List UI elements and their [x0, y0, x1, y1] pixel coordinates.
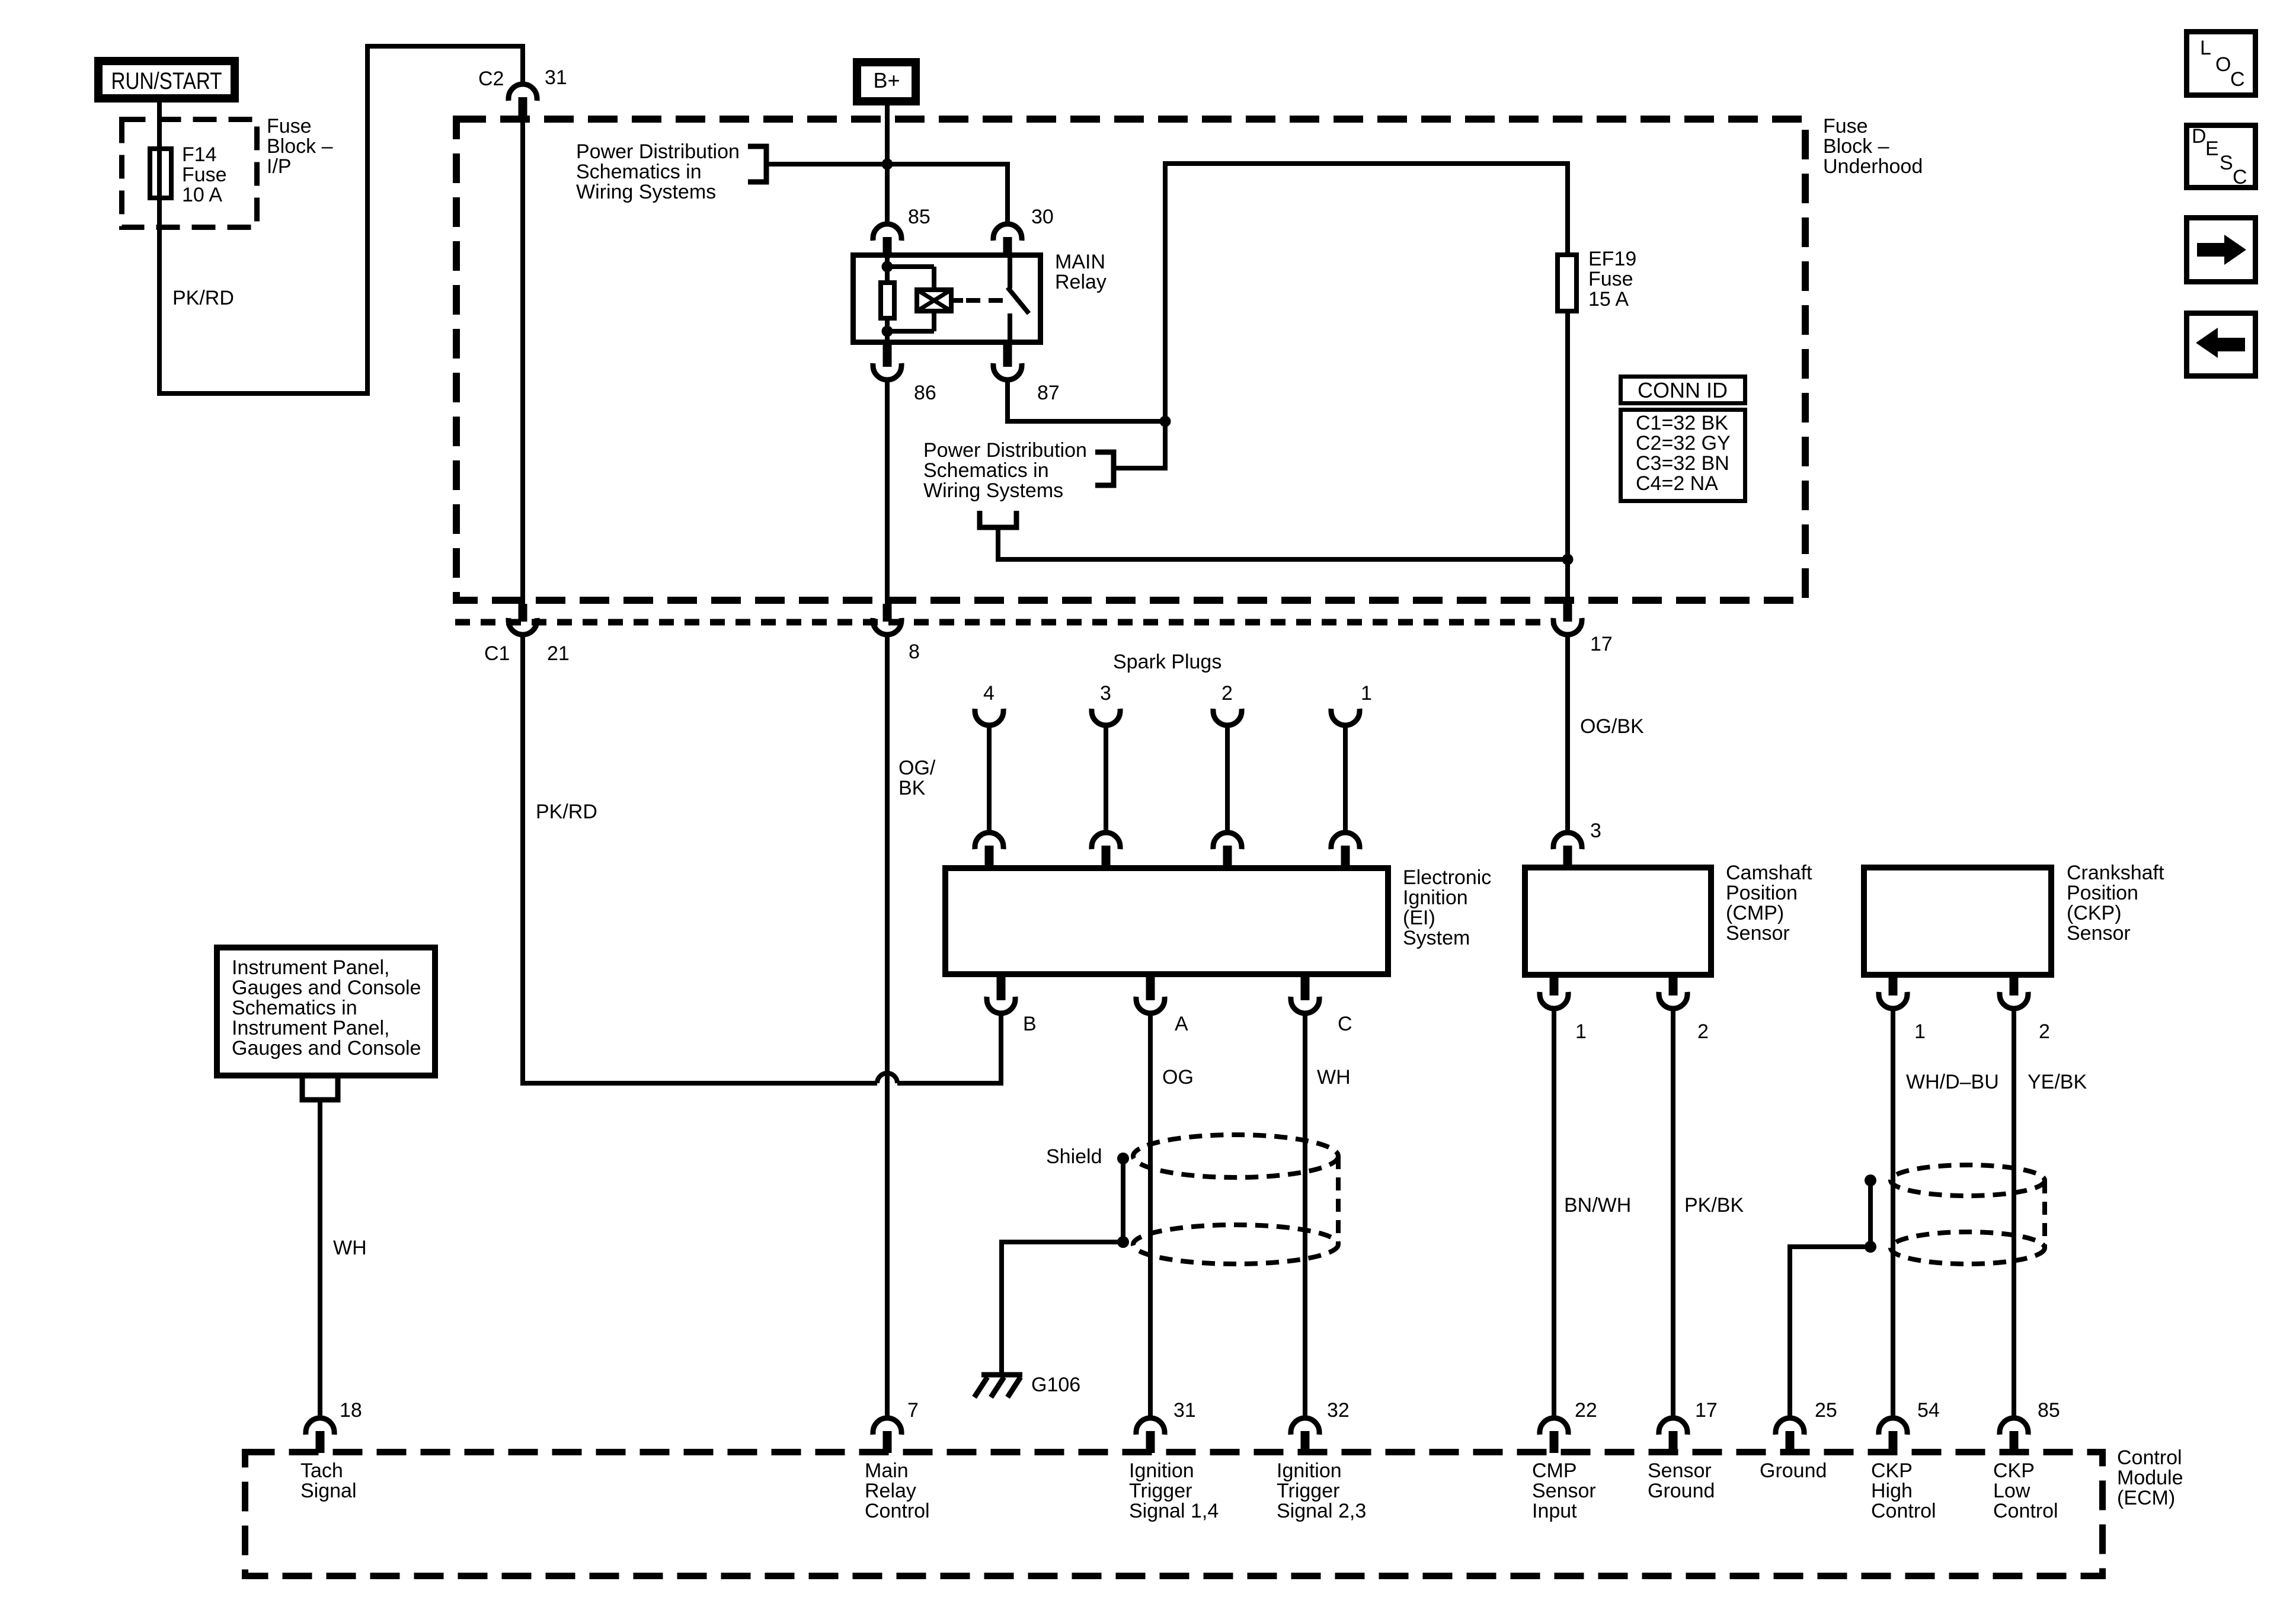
svg-text:Relay: Relay: [1055, 271, 1107, 293]
svg-text:E: E: [2205, 137, 2219, 160]
svg-text:Sensor: Sensor: [1648, 1459, 1712, 1482]
shield right drain wire: [1868, 1180, 1873, 1247]
wire spark plug 1 to EI system: [1343, 724, 1348, 834]
icon back arrow box: [2187, 313, 2256, 376]
svg-text:10 A: 10 A: [182, 184, 222, 206]
wire WH/D-BU CKP 1 to ECM 54: [1893, 1008, 1999, 1420]
svg-text:Signal 1,4: Signal 1,4: [1129, 1500, 1219, 1522]
ECM pin 54 connector: [1879, 1399, 1940, 1453]
svg-text:L: L: [2200, 37, 2211, 59]
wire junction up and right to fuse EF19: [1165, 164, 1568, 421]
svg-text:31: 31: [545, 66, 567, 89]
svg-text:86: 86: [914, 382, 936, 404]
EI pin B connector: [987, 977, 1037, 1035]
reference Instrument Panel Gauges and Console box: [217, 948, 435, 1076]
svg-text:3: 3: [1100, 682, 1111, 705]
wire OG/BK connector 17 to CMP pin 3: [1565, 633, 1570, 834]
svg-text:Crankshaft: Crankshaft: [2067, 862, 2164, 884]
relay pin 85 connector: [873, 206, 930, 254]
wire PK/RD from C1-21 to EI pin B: [523, 633, 1001, 1083]
spark plug 1 terminal: [1331, 682, 1372, 725]
junction shield left bottom: [1117, 1236, 1129, 1248]
svg-text:Control: Control: [1871, 1500, 1936, 1522]
svg-text:Underhood: Underhood: [1823, 155, 1923, 178]
svg-text:7: 7: [907, 1399, 919, 1422]
reference bracket below middle text: [980, 511, 1016, 527]
wire YE/BK CKP 2 to ECM 85: [2014, 1008, 2087, 1420]
svg-text:21: 21: [547, 642, 570, 665]
EI system top pin 1 connector: [1331, 833, 1360, 866]
ECM pin 32 function label: [1277, 1459, 1366, 1522]
wire bracket to relay pin 30: [766, 164, 1008, 226]
svg-text:C: C: [2230, 68, 2245, 91]
ECM pin 7 connector: [873, 1399, 919, 1453]
label OG/BK (left): [898, 757, 936, 799]
svg-text:PK/RD: PK/RD: [536, 801, 597, 823]
ECM pin 32 connector: [1291, 1399, 1350, 1453]
connector C2 pin 31: [478, 66, 567, 119]
svg-text:RUN/START: RUN/START: [111, 68, 222, 94]
svg-text:Fuse: Fuse: [1823, 115, 1868, 137]
reference Power Distribution Schematics in Wiring Systems (top): [576, 140, 766, 203]
fuse block - Underhood dashed box: [456, 119, 1805, 600]
ECM pin 54 function label: [1871, 1459, 1936, 1522]
svg-text:Sensor: Sensor: [1726, 922, 1790, 945]
svg-text:C2: C2: [478, 68, 504, 90]
EI pin A connector: [1136, 977, 1188, 1035]
connector pin 8: [873, 604, 920, 663]
svg-text:85: 85: [2038, 1399, 2060, 1422]
ECM pin 31 function label: [1129, 1459, 1219, 1522]
ECM pin 17 function label: [1648, 1459, 1715, 1502]
svg-text:YE/BK: YE/BK: [2028, 1071, 2087, 1093]
relay switch contact 87 side: [1008, 313, 1012, 343]
relay switch blade: [1008, 287, 1029, 313]
EI system top pin 3 connector: [1092, 833, 1120, 866]
svg-text:C4=2 NA: C4=2 NA: [1636, 472, 1718, 495]
svg-text:Instrument Panel,: Instrument Panel,: [232, 1017, 389, 1039]
svg-text:85: 85: [908, 206, 930, 228]
svg-text:3: 3: [1590, 820, 1601, 842]
icon LOC box: [2187, 32, 2256, 95]
svg-text:Block –: Block –: [267, 135, 333, 158]
reference bracket below instrument panel box: [302, 1078, 338, 1100]
relay coil branch wire: [887, 255, 934, 343]
label Fuse Block - Underhood: [1823, 115, 1923, 178]
svg-text:A: A: [1175, 1013, 1188, 1035]
svg-text:1: 1: [1575, 1020, 1587, 1043]
svg-text:Shield: Shield: [1046, 1145, 1102, 1168]
wire PK/RD inside underhood C2 to C1: [520, 117, 525, 605]
svg-text:1: 1: [1361, 682, 1372, 705]
icon DESC box: [2187, 125, 2256, 188]
svg-text:Signal: Signal: [300, 1480, 357, 1502]
wire OG/BK connector 8 to ECM pin 7: [885, 633, 890, 1420]
svg-text:PK/RD: PK/RD: [172, 287, 234, 309]
shield left drain wire: [1121, 1158, 1125, 1242]
svg-text:18: 18: [340, 1399, 362, 1422]
svg-text:Spark Plugs: Spark Plugs: [1113, 651, 1221, 673]
svg-text:B: B: [1023, 1013, 1037, 1035]
svg-text:Camshaft: Camshaft: [1726, 862, 1812, 884]
svg-text:C1=32 BK: C1=32 BK: [1636, 412, 1728, 434]
svg-text:O: O: [2215, 53, 2231, 76]
ECM pin 22 function label: [1532, 1459, 1596, 1522]
svg-text:OG/BK: OG/BK: [1580, 715, 1644, 738]
fuse F14 10 A: [150, 143, 227, 206]
CMP pin 1 connector: [1540, 978, 1587, 1043]
svg-text:Schematics in: Schematics in: [576, 161, 702, 183]
svg-text:32: 32: [1327, 1399, 1350, 1422]
CMP pin 2 connector: [1659, 978, 1709, 1043]
ECM pin 7 function label: [865, 1459, 930, 1522]
wire WH from EI pin C to ECM 32: [1305, 1013, 1351, 1420]
svg-text:Fuse: Fuse: [267, 115, 312, 137]
svg-text:1: 1: [1914, 1020, 1926, 1043]
ECM pin 17 connector: [1659, 1399, 1718, 1453]
svg-text:WH/D–BU: WH/D–BU: [1906, 1071, 1999, 1093]
CMP sensor pin 3 connector: [1553, 820, 1601, 866]
svg-text:Fuse: Fuse: [1588, 268, 1633, 290]
svg-text:WH: WH: [333, 1237, 367, 1259]
svg-text:CMP: CMP: [1532, 1459, 1577, 1482]
ECM pin 25 connector: [1776, 1399, 1837, 1453]
svg-text:Instrument Panel,: Instrument Panel,: [232, 956, 389, 979]
electronic ignition EI system box: [945, 866, 1491, 974]
wire bracket stem to EF19 fuse bottom node: [998, 527, 1568, 559]
svg-text:BK: BK: [898, 777, 926, 799]
svg-text:2: 2: [1697, 1020, 1709, 1043]
svg-text:Gauges and Console: Gauges and Console: [232, 1037, 421, 1060]
ECM pin 85 connector: [2000, 1399, 2060, 1453]
junction node B+ feed: [882, 159, 893, 170]
svg-text:G106: G106: [1031, 1374, 1080, 1396]
svg-text:Ignition: Ignition: [1403, 886, 1468, 909]
reference Power Distribution Schematics in Wiring Systems (middle): [923, 439, 1114, 502]
svg-text:Gauges and Console: Gauges and Console: [232, 977, 421, 999]
wire spark plug 4 to EI system: [987, 724, 992, 834]
CONN ID table: [1621, 377, 1745, 501]
fuse EF19 15 A: [1558, 248, 1636, 311]
svg-text:BN/WH: BN/WH: [1564, 1194, 1631, 1217]
CKP pin 1 connector: [1879, 978, 1926, 1043]
wire ECM 25 ground to shield right: [1790, 1247, 1865, 1420]
svg-text:Wiring Systems: Wiring Systems: [923, 479, 1063, 502]
svg-text:(ECM): (ECM): [2117, 1487, 2175, 1509]
ground G106: [974, 1374, 1080, 1397]
junction shield left top: [1117, 1153, 1129, 1164]
label PK/RD (lower): [536, 801, 597, 823]
wire BN/WH CMP 1 to ECM 22: [1554, 1008, 1631, 1420]
svg-text:17: 17: [1695, 1399, 1718, 1422]
relay pin 86 connector: [873, 345, 936, 404]
svg-text:(CMP): (CMP): [1726, 902, 1784, 924]
svg-text:Sensor: Sensor: [2067, 922, 2131, 945]
connector C1 pin 21: [484, 604, 570, 665]
svg-text:System: System: [1403, 927, 1470, 949]
svg-text:2: 2: [2039, 1020, 2050, 1043]
svg-text:(CKP): (CKP): [2067, 902, 2122, 924]
svg-text:B+: B+: [873, 68, 900, 92]
svg-text:87: 87: [1037, 382, 1060, 404]
svg-text:Tach: Tach: [300, 1459, 343, 1482]
power node B+: [857, 62, 916, 101]
junction relay coil bottom: [882, 326, 893, 337]
junction relay 87 node: [1160, 416, 1171, 427]
svg-text:8: 8: [909, 641, 920, 663]
control module ECM dashed box: [245, 1446, 2183, 1576]
CKP pin 2 connector: [2000, 978, 2050, 1043]
ECM pin 25 function label: [1760, 1459, 1827, 1482]
svg-text:25: 25: [1815, 1399, 1837, 1422]
svg-text:Low: Low: [1993, 1480, 2030, 1502]
label Fuse Block - I/P: [267, 115, 333, 178]
svg-text:Position: Position: [2067, 882, 2138, 904]
shield left dashed rings: [1133, 1135, 1338, 1264]
svg-text:C1: C1: [484, 642, 510, 665]
svg-text:Input: Input: [1532, 1500, 1577, 1522]
wire relay 87 to junction: [1008, 379, 1165, 421]
spark plug 3 terminal: [1092, 682, 1120, 725]
wire PK/RD from RUN/START through F14 to C2: [159, 46, 523, 393]
relay pin 87 connector: [993, 345, 1060, 404]
ECM pin 22 connector: [1540, 1399, 1597, 1453]
relay MAIN box: [853, 251, 1107, 343]
svg-text:Control: Control: [865, 1500, 930, 1522]
svg-text:54: 54: [1917, 1399, 1940, 1422]
junction EF19 output node: [1562, 554, 1574, 565]
wire WH instrument panel to ECM 18: [320, 1100, 367, 1420]
svg-text:C2=32 GY: C2=32 GY: [1636, 432, 1731, 454]
svg-text:Signal 2,3: Signal 2,3: [1277, 1500, 1366, 1522]
svg-text:Ground: Ground: [1648, 1480, 1715, 1502]
svg-text:PK/BK: PK/BK: [1684, 1194, 1744, 1217]
relay coil (X box): [917, 290, 963, 311]
relay switch contact 30 side: [1008, 255, 1012, 289]
svg-text:Ignition: Ignition: [1129, 1459, 1194, 1482]
switch position RUN/START: [98, 61, 235, 98]
label PK/RD (upper): [172, 287, 234, 309]
icon forward arrow box: [2187, 218, 2256, 282]
svg-text:Position: Position: [1726, 882, 1798, 904]
svg-text:Module: Module: [2117, 1467, 2183, 1489]
label OG/BK (right): [1580, 715, 1644, 738]
ECM pin 18 connector: [306, 1399, 362, 1453]
svg-text:CKP: CKP: [1871, 1459, 1913, 1482]
EI pin C connector: [1291, 977, 1352, 1035]
svg-text:D: D: [2192, 125, 2207, 148]
crankshaft position CKP sensor box: [1864, 862, 2164, 975]
shield right dashed rings: [1891, 1165, 2045, 1264]
svg-text:Schematics in: Schematics in: [232, 997, 357, 1019]
svg-text:Trigger: Trigger: [1129, 1480, 1192, 1502]
junction shield right top: [1865, 1174, 1876, 1186]
svg-text:Ignition: Ignition: [1277, 1459, 1342, 1482]
svg-text:MAIN: MAIN: [1055, 251, 1105, 273]
svg-text:OG/: OG/: [898, 757, 936, 779]
svg-text:Power Distribution: Power Distribution: [923, 439, 1087, 462]
junction relay coil top: [882, 261, 893, 273]
svg-text:EF19: EF19: [1588, 248, 1636, 270]
EI system top pin 4 connector: [975, 833, 1003, 866]
svg-text:Control: Control: [2117, 1446, 2182, 1469]
svg-text:Main: Main: [865, 1459, 909, 1482]
relay actuator dashed link: [966, 298, 1006, 303]
svg-text:30: 30: [1031, 206, 1054, 228]
wire spark plug 3 to EI system: [1104, 724, 1108, 834]
svg-text:Wiring Systems: Wiring Systems: [576, 181, 716, 203]
svg-text:CKP: CKP: [1993, 1459, 2035, 1482]
svg-text:S: S: [2220, 152, 2233, 174]
svg-text:Trigger: Trigger: [1277, 1480, 1339, 1502]
connector pin 17: [1553, 604, 1613, 655]
svg-text:F14: F14: [182, 143, 217, 166]
svg-text:CONN ID: CONN ID: [1638, 378, 1728, 402]
svg-text:Schematics in: Schematics in: [923, 459, 1049, 482]
wire OG from EI pin A to ECM 31: [1150, 1013, 1194, 1420]
junction shield right bottom: [1865, 1241, 1876, 1253]
wire B+ down to relay pin 85: [885, 105, 890, 226]
ECM pin 31 connector: [1136, 1399, 1196, 1453]
svg-text:22: 22: [1575, 1399, 1597, 1422]
label Spark Plugs: [1113, 651, 1221, 673]
svg-text:Ground: Ground: [1760, 1459, 1827, 1482]
svg-text:C3=32 BN: C3=32 BN: [1636, 452, 1729, 475]
camshaft position CMP sensor box: [1525, 862, 1812, 975]
svg-text:4: 4: [983, 682, 994, 705]
ECM pin 85 function label: [1993, 1459, 2058, 1522]
svg-text:I/P: I/P: [267, 155, 292, 178]
wire junction down to middle reference bracket: [1114, 421, 1165, 468]
wire EF19 fuse down to connector 17: [1565, 313, 1570, 605]
svg-text:OG: OG: [1162, 1066, 1194, 1089]
spark plug 2 terminal: [1213, 682, 1242, 725]
svg-text:High: High: [1871, 1480, 1913, 1502]
ECM pin 18 function label: [300, 1459, 357, 1502]
svg-text:2: 2: [1221, 682, 1233, 705]
wire PK/BK CMP 2 to ECM 17: [1673, 1008, 1744, 1420]
wire relay 86 to connector 8: [885, 379, 890, 605]
svg-text:Power Distribution: Power Distribution: [576, 140, 740, 163]
svg-text:WH: WH: [1317, 1066, 1351, 1089]
relay pin 30 connector: [993, 206, 1054, 254]
svg-text:Control: Control: [1993, 1500, 2058, 1522]
spark plug 4 terminal: [975, 682, 1003, 725]
svg-text:17: 17: [1590, 633, 1613, 655]
connector boundary dashed line C1: [455, 619, 1553, 626]
svg-text:Fuse: Fuse: [182, 164, 227, 186]
svg-text:Block –: Block –: [1823, 135, 1889, 158]
svg-text:31: 31: [1173, 1399, 1196, 1422]
wire spark plug 2 to EI system: [1225, 724, 1230, 834]
svg-text:Sensor: Sensor: [1532, 1480, 1596, 1502]
svg-text:(EI): (EI): [1403, 907, 1435, 929]
svg-text:Electronic: Electronic: [1403, 866, 1491, 889]
label Shield: [1046, 1145, 1102, 1168]
fuse block - I/P dashed box: [122, 120, 257, 228]
relay resistor: [881, 283, 894, 318]
svg-text:15 A: 15 A: [1588, 288, 1629, 311]
EI system top pin 2 connector: [1213, 833, 1242, 866]
svg-text:C: C: [2233, 166, 2247, 188]
wire shield drain to ground G106: [1002, 1242, 1123, 1372]
svg-text:Relay: Relay: [865, 1480, 916, 1502]
svg-text:C: C: [1338, 1013, 1352, 1035]
